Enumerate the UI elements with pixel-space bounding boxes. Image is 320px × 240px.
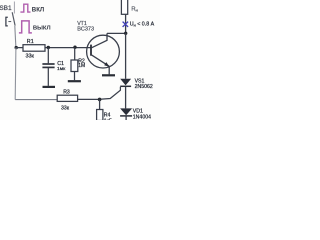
wire node to VS1 anode: [125, 33, 127, 79]
wire bottom rail left: [15, 99, 57, 101]
switch SB1 actuator dashed link: [8, 21, 11, 23]
svg-text:Uн < 0.8 A: Uн < 0.8 A: [130, 21, 155, 27]
wire R4 top lead: [99, 99, 101, 109]
resistor R4: [97, 110, 103, 121]
svg-text:ВКЛ: ВКЛ: [32, 6, 44, 13]
pulse symbol VKL (short press): [20, 4, 30, 12]
transistor VT1 circle: [87, 35, 120, 68]
node E: junction dot R3/R4/gate: [98, 98, 102, 102]
svg-text:1N4004: 1N4004: [133, 115, 151, 120]
svg-text:1мк: 1мк: [57, 66, 66, 72]
node A: junction dot switch/R1/left rail: [15, 46, 18, 49]
wire emitter lead: [108, 66, 110, 74]
svg-text:33к: 33к: [61, 106, 70, 112]
switch SB1 moving contact: [12, 12, 15, 25]
svg-text:SB1: SB1: [0, 5, 12, 12]
current marker X (blue): [123, 22, 129, 27]
transistor VT1 base bar: [90, 45, 92, 56]
wire R2 bottom lead: [74, 72, 76, 81]
wire R3 to node E: [78, 98, 100, 100]
resistor Rn (load): [121, 0, 127, 14]
wire left vertical: [14, 48, 17, 100]
svg-text:BC373: BC373: [77, 26, 94, 32]
wire VS1 cathode to VD1 anode: [125, 87, 127, 109]
node D: junction dot collector/Rn/VS1: [124, 32, 127, 35]
node C: junction dot rail/R2: [73, 46, 76, 49]
ground bar under R2: [68, 80, 81, 82]
transistor VT1 emitter with arrow: [92, 55, 110, 66]
ground bar under emitter: [102, 74, 115, 76]
wire collector to thyristor node: [107, 32, 126, 34]
svg-text:Rн: Rн: [131, 7, 137, 13]
transistor VT1 collector: [92, 33, 108, 47]
wire VD1 cathode to bottom edge: [125, 117, 127, 121]
resistor R1: [23, 45, 45, 52]
wire top rail: [16, 47, 91, 49]
svg-text:ВЫКЛ: ВЫКЛ: [33, 25, 51, 31]
svg-text:1к5: 1к5: [104, 118, 112, 120]
svg-text:2N5062: 2N5062: [135, 84, 153, 90]
thyristor VS1 gate wire: [100, 87, 120, 100]
svg-text:R1: R1: [27, 39, 34, 45]
wire Rn to node: [125, 14, 127, 33]
svg-text:33к: 33к: [26, 54, 35, 60]
pulse symbol VYKL (long press): [19, 21, 32, 33]
resistor R2: [71, 60, 78, 72]
svg-text:R3: R3: [63, 89, 70, 95]
wire C1 top lead: [47, 48, 49, 64]
thyristor VS1: [120, 79, 131, 86]
diode VD1: [120, 108, 132, 115]
wire R2 top lead: [74, 48, 76, 61]
wire C1 bottom lead: [47, 68, 49, 86]
switch SB1 label: [0, 5, 12, 12]
switch SB1 bottom terminal wire: [15, 26, 16, 48]
capacitor C1: [42, 63, 54, 65]
ground bar under C1: [43, 86, 56, 88]
switch SB1 top terminal wire: [13, 2, 15, 14]
svg-text:VD1: VD1: [133, 108, 143, 114]
svg-text:1M: 1M: [78, 63, 85, 69]
switch SB1 actuator bracket: [6, 17, 8, 26]
node B: junction dot rail/C1: [47, 46, 50, 49]
resistor R3: [57, 95, 77, 101]
